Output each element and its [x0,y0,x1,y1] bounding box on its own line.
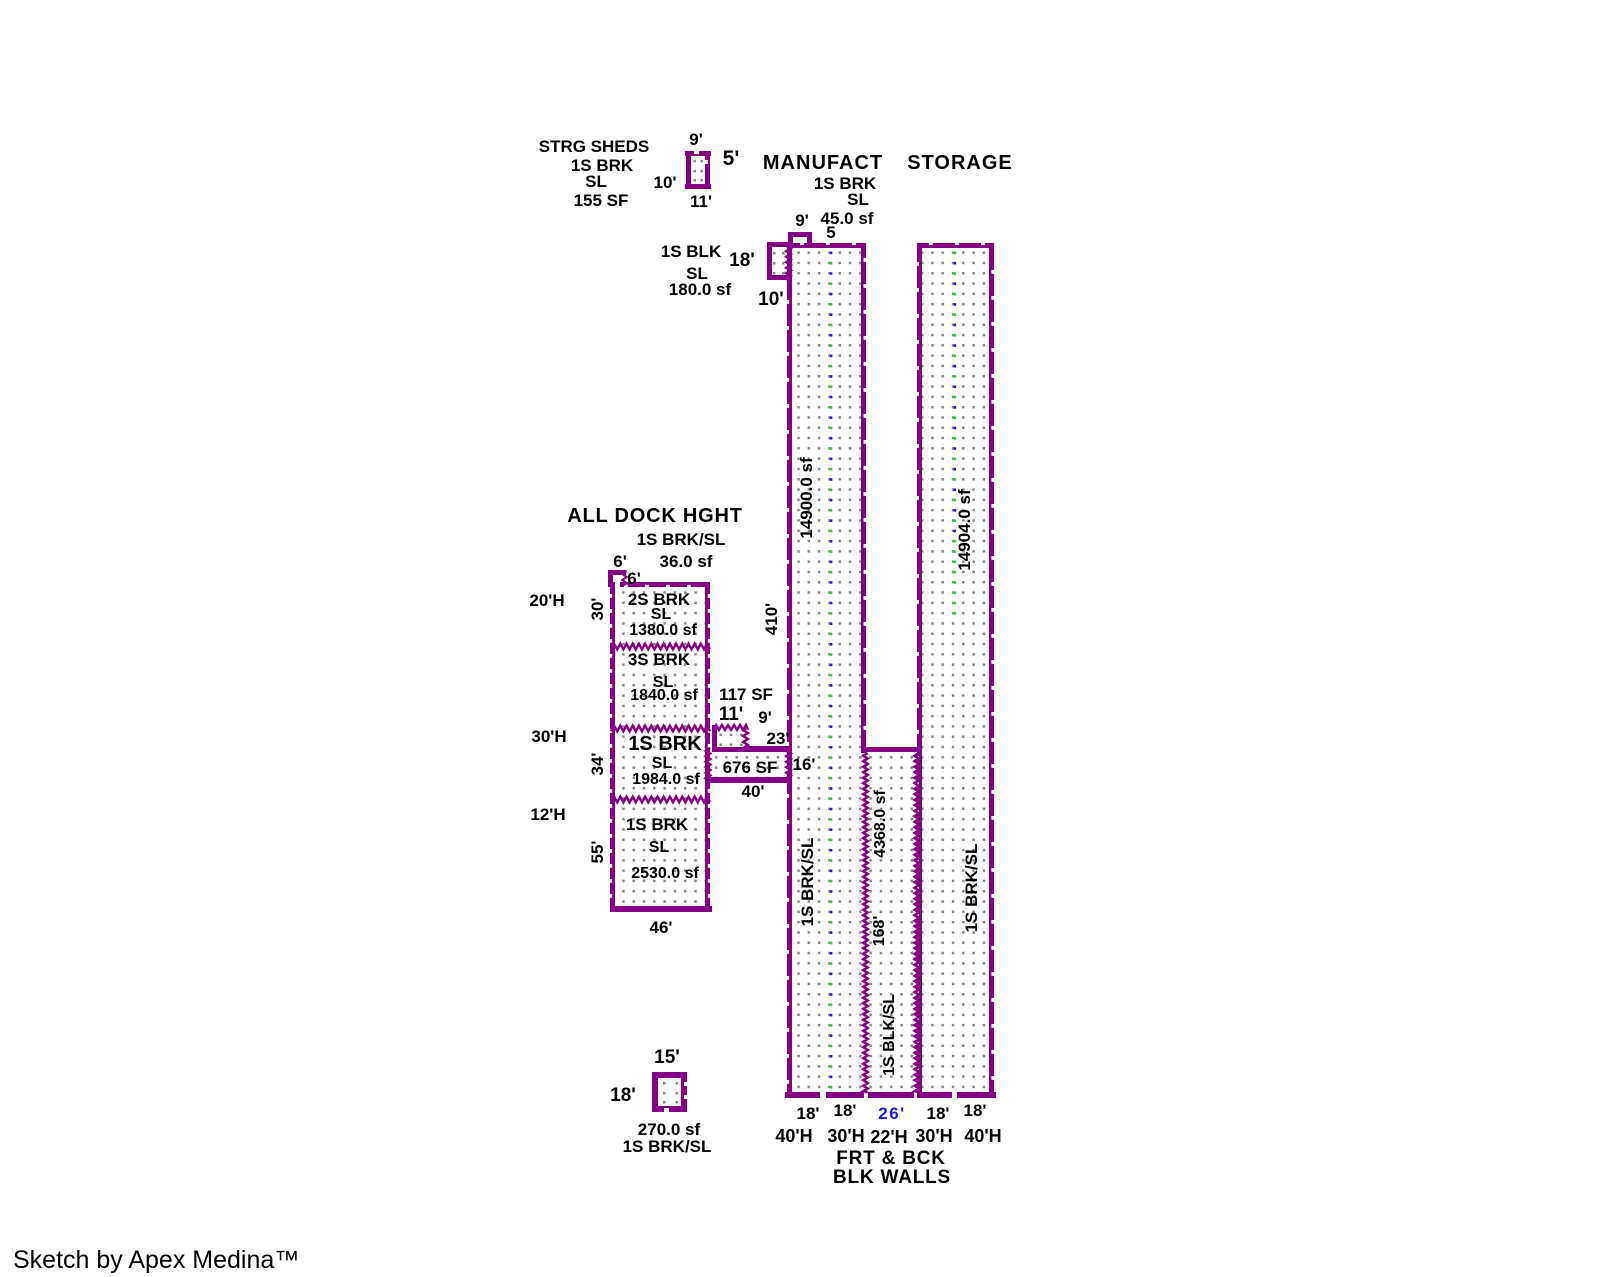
svg-text:1840.0 sf: 1840.0 sf [630,687,698,704]
svg-text:1S BRK/SL: 1S BRK/SL [637,530,726,549]
svg-text:5': 5' [723,147,740,170]
svg-text:6': 6' [613,552,627,571]
middle column bottom wall [868,1092,914,1098]
stack left wall [610,582,615,911]
svg-text:1S BRK: 1S BRK [628,733,702,755]
left column colored dot line [830,252,833,255]
bottom shed 270sf fill [663,1082,666,1085]
svg-text:410': 410' [762,603,781,635]
svg-text:SL: SL [585,172,607,191]
180sf bump bottom wall [767,275,790,280]
svg-text:STORAGE: STORAGE [907,152,1013,174]
svg-text:ALL DOCK HGHT: ALL DOCK HGHT [567,505,743,527]
bottom shed top wall [652,1072,687,1078]
shared zigzag wall at left column left edge (strip area) [786,748,790,780]
left column bottom wall seg1 [785,1092,820,1098]
180sf bump top wall [767,242,790,247]
svg-text:23': 23' [767,729,790,748]
svg-text:1S BLK/SL: 1S BLK/SL [881,994,898,1076]
svg-text:40': 40' [742,782,765,801]
wall ticks stack [610,594,613,598]
stack bottom wall [610,906,712,912]
svg-text:46': 46' [650,918,673,937]
svg-text:30'H: 30'H [827,1126,864,1146]
svg-text:16': 16' [793,755,816,774]
svg-text:11': 11' [690,192,712,211]
svg-text:18': 18' [964,1101,987,1120]
36sf notch left wall [608,570,613,587]
svg-text:12'H: 12'H [530,805,565,824]
svg-text:SL: SL [652,755,673,772]
45sf notch right wall [807,232,812,248]
top shed right wall [705,151,710,189]
svg-text:22'H: 22'H [870,1127,907,1147]
svg-text:FRT & BCK: FRT & BCK [836,1148,946,1169]
svg-text:40'H: 40'H [775,1126,812,1146]
svg-text:168': 168' [871,916,888,947]
svg-text:2530.0 sf: 2530.0 sf [631,865,699,882]
svg-text:155 SF: 155 SF [574,191,629,210]
stacked dock rect C fill (1S BRK 1984sf) [614,730,706,800]
svg-text:4368.0 sf: 4368.0 sf [872,790,889,858]
36sf notch right zigzag [622,571,626,586]
svg-text:36.0 sf: 36.0 sf [660,552,713,571]
svg-text:1S BRK/SL: 1S BRK/SL [623,1137,712,1156]
svg-text:1S BRK: 1S BRK [626,815,689,834]
676 strip left zigzag wall [706,748,710,780]
building section left column fill (MANUFACT 18+18) [790,246,863,1094]
right column colored dot line [954,252,957,255]
svg-text:14904.0 sf: 14904.0 sf [955,489,974,571]
svg-text:SL: SL [649,839,670,856]
svg-text:MANUFACT: MANUFACT [763,152,883,174]
stacked dock rect D fill (1S BRK 2530sf) [614,800,706,908]
left column left wall [787,243,792,1098]
svg-text:30'H: 30'H [531,727,566,746]
svg-text:11': 11' [719,704,744,725]
45sf notch left wall [788,232,793,248]
svg-text:9': 9' [758,708,772,727]
svg-text:676 SF: 676 SF [723,758,778,777]
svg-text:10': 10' [654,173,677,192]
svg-text:10': 10' [758,289,784,310]
right column right wall [989,243,994,1098]
svg-text:SL: SL [651,606,672,623]
117sf rect left wall [712,725,717,752]
zigzag divider B/C [611,726,710,732]
svg-text:9': 9' [689,130,703,149]
stack right wall [705,582,710,911]
svg-text:Sketch by Apex Medina™: Sketch by Apex Medina™ [13,1246,299,1274]
svg-text:18': 18' [729,250,755,271]
svg-text:18': 18' [610,1085,636,1106]
svg-text:1S BLK: 1S BLK [661,242,722,261]
180sf bump fill [773,252,776,255]
middle column top wall [863,747,921,752]
left column bottom wall seg2 [826,1092,864,1098]
45sf notch top wall [788,232,812,237]
180sf bump left wall [767,242,772,280]
676 strip bottom wall [705,777,790,783]
svg-text:6': 6' [627,569,641,588]
svg-text:SL: SL [847,190,869,209]
bottom shed wall notches [684,1082,688,1086]
svg-text:30'H: 30'H [915,1126,952,1146]
svg-text:26': 26' [878,1104,905,1123]
bottom shed left wall [652,1072,658,1112]
top shed wall notches [694,150,699,154]
bottom shed right wall [681,1072,687,1112]
36sf notch top wall [608,570,626,575]
top shed bottom wall [685,184,711,189]
svg-text:1984.0 sf: 1984.0 sf [632,771,700,788]
svg-text:BLK WALLS: BLK WALLS [833,1167,951,1188]
wall ticks left column [800,243,804,246]
svg-text:14900.0 sf: 14900.0 sf [797,457,816,539]
right column bottom wall seg1 [917,1092,952,1098]
svg-text:18': 18' [927,1104,950,1123]
svg-text:18': 18' [797,1104,820,1123]
top shed top wall [685,151,711,156]
left column top wall [787,243,866,248]
right column left wall [917,243,922,1098]
117sf rect bottom wall [712,747,749,752]
svg-text:34': 34' [588,753,607,776]
building middle column fill (1S BLK/SL 26ft) [867,749,918,1094]
zigzag divider C/D [611,797,710,803]
wall ticks right column [929,243,933,246]
svg-text:3S BRK: 3S BRK [628,650,691,669]
right column top wall [917,243,994,248]
stack top wall [620,582,710,587]
svg-text:18': 18' [834,1101,857,1120]
svg-text:20'H: 20'H [529,591,564,610]
117sf rect top zigzag [713,725,748,730]
svg-text:STRG SHEDS: STRG SHEDS [539,137,650,156]
36sf notch fill [613,575,623,584]
bottom shed bottom wall [652,1106,687,1112]
svg-text:40'H: 40'H [964,1126,1001,1146]
top shed left wall [686,151,691,189]
zigzag divider A/B [611,644,710,650]
middle column left zigzag wall [863,753,867,1092]
117sf rect right zigzag [743,727,748,750]
svg-text:1380.0 sf: 1380.0 sf [629,622,697,639]
svg-text:1S BRK/SL: 1S BRK/SL [798,838,817,927]
svg-text:55': 55' [588,841,607,864]
svg-text:180.0 sf: 180.0 sf [669,280,732,299]
676 SF strip fill [710,751,788,778]
stacked dock rect B fill (3S BRK 1840sf) [614,648,706,730]
svg-text:30': 30' [588,598,607,621]
svg-text:15': 15' [654,1047,680,1068]
117 SF small rect fill [720,734,723,737]
right column bottom wall seg2 [957,1092,996,1098]
top shed 155sf fill [694,160,696,162]
svg-text:9': 9' [795,211,809,230]
building section right column fill (STORAGE 18+18) [921,246,989,1094]
stacked dock rect A fill (2S BRK 1380sf) [614,586,706,648]
middle column right zigzag wall [915,753,919,1092]
676 strip top wall [744,746,790,752]
svg-text:5: 5 [826,223,835,242]
svg-text:1S BRK/SL: 1S BRK/SL [962,844,981,933]
svg-text:117 SF: 117 SF [719,685,773,704]
left column right wall (upper part only) [861,243,866,753]
180sf bump right zigzag shared wall [786,243,790,281]
